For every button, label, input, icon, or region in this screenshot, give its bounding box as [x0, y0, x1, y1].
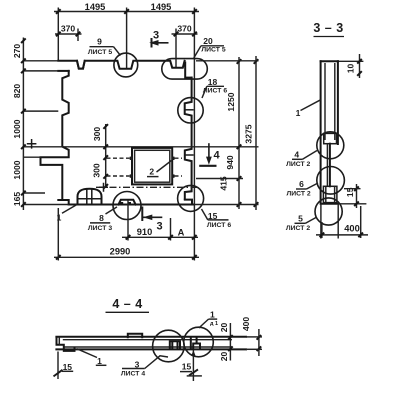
svg-text:400: 400 — [344, 224, 360, 234]
svg-text:3275: 3275 — [244, 124, 254, 143]
tick 910 c — [192, 235, 197, 240]
ext line x194.5 right — [193, 8, 195, 261]
right inner dim chain — [238, 57, 240, 209]
svg-text:1000: 1000 — [12, 119, 22, 138]
section mark 4 arrowhead — [206, 157, 212, 165]
tick 2990 right — [192, 255, 197, 260]
label 9 leader — [114, 47, 121, 56]
label 1 leader section33 — [301, 100, 321, 111]
svg-text:3: 3 — [153, 30, 159, 42]
svg-text:ЛИСТ 6: ЛИСТ 6 — [207, 222, 231, 229]
svg-text:д 1: д 1 — [210, 321, 218, 327]
text 15 left underline — [62, 370, 73, 372]
tick left y70.9 — [21, 69, 26, 74]
svg-text:165: 165 — [12, 192, 22, 207]
tick 370L b — [76, 32, 81, 37]
key centerline right upper — [185, 109, 194, 111]
svg-text:1: 1 — [57, 213, 62, 223]
tick right inner y146.8 — [237, 145, 242, 150]
section mark 4 arrow line — [208, 143, 210, 161]
plug block — [324, 133, 337, 143]
detail circle top middle — [114, 53, 138, 77]
svg-text:9: 9 — [97, 37, 102, 47]
tick 20 top — [228, 335, 233, 340]
dim 10 line — [359, 54, 361, 78]
svg-text:820: 820 — [12, 84, 22, 99]
strip left end step — [57, 337, 75, 351]
dim 15 mid arrowhead — [191, 350, 195, 356]
tick 400r bottom — [257, 346, 262, 351]
tick top-left — [56, 9, 61, 14]
svg-text:3 – 3: 3 – 3 — [313, 21, 343, 35]
svg-text:1000: 1000 — [12, 160, 22, 179]
ext top edge to left chain — [23, 60, 58, 62]
dim right 400 line — [258, 329, 260, 356]
strip inner top line — [63, 339, 232, 341]
svg-text:20: 20 — [203, 36, 213, 46]
block in circle A — [170, 341, 180, 348]
wall top cap — [321, 60, 338, 62]
strip inner bottom line — [63, 346, 232, 348]
inner dim chain line x105.7 — [105, 124, 107, 188]
stem right line — [329, 144, 331, 187]
corner step top-left — [58, 70, 68, 72]
tick inner y157.6 — [103, 155, 108, 160]
wall left face — [320, 61, 322, 204]
bottom notch trapezoid — [119, 200, 136, 205]
lifting loop inner lines — [78, 189, 100, 204]
svg-text:ЛИСТ 2: ЛИСТ 2 — [286, 225, 310, 232]
tick 370R b — [192, 32, 197, 37]
ext long y146.8 — [23, 146, 258, 148]
tick 2990 left — [56, 255, 61, 260]
key centerline right lower — [185, 154, 194, 156]
svg-text:15: 15 — [63, 362, 73, 372]
svg-text:ЛИСТ 2: ЛИСТ 2 — [286, 161, 310, 168]
tick right outer top — [254, 59, 259, 64]
text 15 mid underline — [180, 371, 192, 373]
section mark 4 bar — [199, 165, 216, 167]
anchor dashes left — [107, 158, 130, 176]
ext 400 left — [321, 222, 323, 238]
ext y193 stub — [23, 192, 45, 194]
label 4 leader — [303, 151, 318, 160]
central opening outer square — [132, 148, 172, 185]
axis cross mid — [99, 183, 108, 192]
svg-text:18: 18 — [208, 77, 218, 87]
detail circle B — [184, 327, 214, 357]
ext y111 to left chain — [23, 110, 58, 112]
ext strip top right — [246, 336, 262, 338]
svg-text:300: 300 — [92, 127, 102, 142]
ext left face down — [320, 204, 322, 239]
ext x170.5 down — [170, 218, 172, 241]
anchor dashes right — [175, 158, 183, 176]
dim top 1495+1495 line — [54, 11, 199, 13]
label 9 underline — [90, 46, 114, 48]
tick 15 a — [354, 186, 359, 191]
svg-text:20: 20 — [219, 323, 229, 333]
label 6 underline — [296, 188, 307, 190]
svg-text:940: 940 — [225, 155, 235, 170]
tick inner y176.4 — [103, 174, 108, 179]
tick inner y146.8 — [103, 145, 108, 150]
dim 400 line — [316, 234, 368, 236]
label 1 44right leader — [199, 319, 209, 328]
axis cross left — [27, 139, 37, 149]
joint in circle B — [191, 337, 200, 348]
central opening inner square — [135, 150, 170, 182]
tick right inner y178.5 — [237, 176, 242, 181]
tick 400 a — [320, 233, 325, 238]
slab bottom edge — [69, 204, 194, 206]
svg-text:20: 20 — [219, 352, 229, 362]
detail circle bottom right corner — [178, 185, 204, 211]
ext right face down — [337, 204, 339, 239]
slab top edge — [58, 61, 191, 78]
ext corner step to left chain — [23, 70, 58, 72]
loop wire cuts bottom notch — [120, 202, 123, 205]
ext 400 right — [360, 206, 362, 238]
title 3-3 underline — [314, 36, 345, 38]
tick top-mid — [124, 9, 129, 14]
strip left end inner — [58, 337, 60, 345]
niche top-left trapezoid — [77, 61, 85, 69]
corner step bottom-left — [58, 200, 68, 205]
svg-text:ЛИСТ 3: ЛИСТ 3 — [88, 225, 112, 232]
tick 910 b — [168, 235, 173, 240]
svg-text:1: 1 — [97, 356, 102, 366]
svg-text:370: 370 — [177, 24, 192, 34]
slab left edge with keys and tongue — [41, 71, 69, 200]
dim 370 left line — [55, 33, 82, 35]
svg-text:ЛИСТ 5: ЛИСТ 5 — [201, 47, 225, 54]
ext top edge right — [196, 60, 259, 62]
label 20 leader — [194, 46, 201, 58]
dim 15 line — [356, 184, 358, 208]
svg-text:8: 8 — [99, 213, 104, 223]
tick right outer bottom — [254, 202, 259, 207]
svg-text:3: 3 — [156, 221, 162, 233]
dim right 20 line — [229, 323, 231, 361]
tick 910 a — [126, 235, 131, 240]
tick 400r top — [257, 335, 262, 340]
tick left y146.8 — [21, 145, 26, 150]
label 20 underline — [201, 45, 224, 47]
svg-text:1: 1 — [210, 310, 215, 320]
label 5 leader — [306, 218, 317, 224]
axis dash-dot y187.3 — [96, 186, 199, 188]
label 1 leader — [62, 205, 77, 214]
svg-text:1495: 1495 — [85, 2, 106, 12]
left dim chain line — [22, 38, 24, 211]
title 4-4 underline — [106, 311, 150, 313]
svg-text:ЛИСТ 4: ЛИСТ 4 — [121, 371, 145, 378]
label 1 44left underline — [96, 364, 107, 366]
svg-text:ЛИСТ 2: ЛИСТ 2 — [286, 190, 310, 197]
ext bottom edge to left chain — [23, 204, 68, 206]
ext y178.5 — [196, 178, 243, 180]
tick left y40.7 — [21, 38, 26, 43]
label 18 underline — [207, 85, 224, 87]
tick left y193 — [21, 191, 26, 196]
svg-text:370: 370 — [61, 24, 76, 34]
ext tongue top — [24, 156, 41, 158]
svg-text:ЛИСТ 5: ЛИСТ 5 — [88, 49, 112, 56]
svg-text:5: 5 — [298, 214, 303, 224]
anchor plate right lower — [172, 174, 175, 177]
label 2 leader — [157, 161, 172, 173]
section mark 3 top bar — [151, 38, 153, 48]
label 8 leader — [106, 207, 118, 214]
svg-text:300: 300 — [92, 163, 102, 178]
tick 370L a — [56, 32, 61, 37]
bearing block inner lines — [326, 186, 335, 202]
strip bottom line — [56, 348, 246, 350]
wall bottom line — [322, 203, 339, 205]
svg-text:4: 4 — [294, 150, 299, 160]
tick 10 a — [357, 59, 362, 64]
anchor plate right upper — [172, 157, 175, 160]
label 6 leader — [307, 183, 319, 189]
ext strip bottom right — [246, 348, 262, 350]
dim 370 right line — [172, 33, 198, 35]
strip top line — [56, 336, 246, 338]
section mark 3 top arrowhead — [149, 40, 158, 46]
detail circle bottom middle — [113, 192, 141, 220]
tick right inner y204.5 — [237, 202, 242, 207]
ext x128 down — [127, 200, 129, 241]
svg-text:2990: 2990 — [110, 246, 131, 256]
tick left y60.8 — [21, 59, 26, 64]
tick 370R a — [174, 32, 179, 37]
wall inner left line — [324, 63, 326, 140]
ext line x126.6 centerline — [126, 8, 128, 69]
dim 2990 line — [54, 256, 199, 258]
ext 2990 left — [57, 208, 59, 261]
wall inner right line — [334, 63, 336, 140]
tick top-right — [192, 9, 197, 14]
ext x78 — [77, 29, 79, 42]
label 5 underline — [295, 222, 306, 224]
dim 15 mid line — [192, 350, 194, 381]
tick right inner y61.5 — [237, 59, 242, 64]
svg-text:6: 6 — [299, 179, 304, 189]
detail circle 5 — [315, 198, 342, 225]
anchor plate left lower — [130, 174, 133, 177]
dim 910 line — [122, 236, 198, 238]
svg-text:4 – 4: 4 – 4 — [112, 297, 142, 311]
slab right edge with keys — [185, 78, 192, 199]
right outer dim line — [255, 56, 257, 210]
tick 15L — [54, 370, 63, 377]
detail circle 4 — [317, 132, 344, 159]
label 18 leader — [202, 86, 207, 98]
raised block top — [128, 334, 142, 338]
svg-text:10: 10 — [346, 64, 356, 74]
tick 10 b — [357, 71, 362, 76]
svg-text:1495: 1495 — [151, 2, 172, 12]
svg-text:1: 1 — [296, 108, 301, 118]
label 3 44 underline — [122, 368, 145, 370]
tick left y204.5 — [21, 202, 26, 207]
dim 15 left line — [57, 352, 59, 380]
tick 15 b — [354, 202, 359, 207]
tick left y111.1 — [21, 109, 26, 114]
section mark 3 bottom arrow — [142, 216, 162, 218]
svg-text:415: 415 — [219, 176, 229, 191]
section mark 3 bottom bar — [141, 207, 143, 222]
svg-text:270: 270 — [12, 44, 22, 59]
anchor plate left upper — [130, 157, 133, 160]
ext x176 — [175, 29, 177, 68]
tick inner y186.4 — [103, 184, 108, 189]
svg-text:4: 4 — [214, 150, 221, 162]
detail circle A — [153, 330, 185, 362]
ext 15 top — [344, 188, 361, 190]
svg-text:2: 2 — [149, 167, 154, 177]
label 8 underline — [90, 222, 110, 224]
svg-text:400: 400 — [241, 317, 251, 332]
detail circle 6 — [317, 167, 345, 195]
label 1 44left leader — [77, 349, 97, 358]
detail circle right key — [178, 98, 203, 123]
wall right face — [337, 61, 339, 144]
label 2 underline — [147, 176, 159, 178]
svg-text:15: 15 — [182, 362, 192, 372]
corner detail bottom right — [185, 200, 192, 205]
svg-text:1250: 1250 — [226, 92, 236, 111]
wall bottom extension — [338, 203, 366, 205]
dim 15 mid tick — [189, 369, 198, 375]
tick 400 b — [358, 233, 363, 238]
lifting loop bottom — [78, 189, 102, 205]
detail oval top right — [162, 59, 208, 80]
svg-text:А: А — [178, 227, 185, 237]
tick 20 bottom — [228, 346, 233, 351]
label 3 44 leader — [145, 356, 168, 369]
section mark 3 bottom arrowhead — [143, 215, 152, 221]
bearing block — [323, 186, 337, 202]
dim 15 mid base — [187, 375, 202, 377]
ext line x58 — [57, 8, 59, 61]
label 15 underline — [208, 219, 229, 221]
label 1 44right underline — [209, 318, 218, 320]
ext bottom edge right — [194, 204, 259, 206]
stem lines — [326, 144, 328, 187]
svg-text:910: 910 — [137, 227, 153, 237]
top cap extension — [338, 60, 363, 62]
label 15 leader — [202, 209, 208, 220]
svg-text:15: 15 — [345, 187, 355, 197]
section mark 3 top arrow — [152, 42, 169, 44]
tick inner y126.5 — [103, 124, 108, 129]
label 4 underline — [292, 158, 303, 160]
